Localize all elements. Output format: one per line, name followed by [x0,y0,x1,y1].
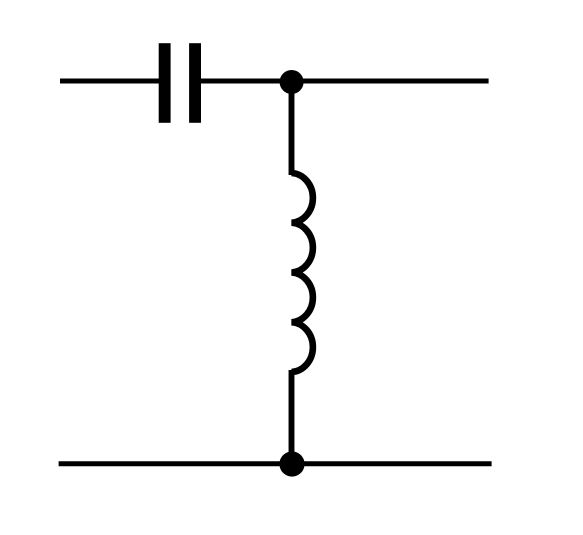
capacitor C1 left plate [159,43,171,123]
capacitor C1 right plate [189,43,201,123]
wire vertical upper segment [289,82,295,175]
wire top-right segment [292,79,489,84]
node junction dot top [280,70,304,94]
wire top-middle segment [200,79,292,84]
inductor L1 [292,173,313,372]
wire vertical lower segment [289,370,295,464]
wire bottom rail [59,461,492,466]
node junction dot bottom [279,451,304,476]
wire top-left segment [60,79,160,84]
